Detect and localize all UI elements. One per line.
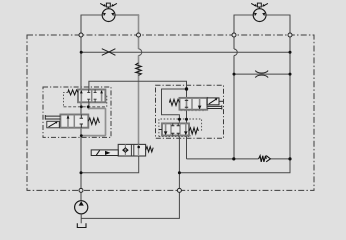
pump P1 [75,201,88,224]
LV2 spring right [88,118,99,124]
wire: x=186.5 through valves down to collector [186,110,188,159]
RV1 through line + stubs left cell [186,98,188,110]
port circle P (pump) [79,188,83,192]
LV1 pilot dotted lines [64,92,68,106]
LV1 pilot stub below [88,102,90,109]
check valve (spring-arrow) on collector line [259,156,267,162]
port circle M1-A [79,33,83,37]
wire: motor M1 right port down [115,14,139,16]
orifice restrictor symbol [255,71,268,78]
wire: collector line y=158.9 [187,158,291,160]
wire: x=179.4 return down to bottom port [178,136,180,191]
wire: branch to right lower valve [162,89,187,123]
RV2 dotted pilot box [159,119,202,137]
left valve group enclosure [43,87,111,137]
wire: pilot feed y=81.3 from left valve to right valve group [89,81,187,98]
tank symbol [77,223,86,227]
RV1 dotted underline [181,110,207,112]
outer enclosure dash-dot boundary [27,35,314,190]
port circle M2-A [232,33,236,37]
port circle M1-B [137,33,141,37]
LV1 blocked stubs left cell [87,90,90,103]
LV3 check/diamond in left cell [124,144,126,156]
valve RV2 (right group bottom) [159,119,202,137]
hydraulic motor M1 [100,3,117,21]
RV2 left port stub [159,129,162,131]
LV1 blocked stubs right cell [94,90,97,103]
LV3 through line right cell [138,144,140,156]
wire: return path y=172.8 [179,159,290,173]
RV2 spring right [189,128,198,134]
right valve group enclosure [156,85,224,138]
junction dot M2 right line [289,73,292,76]
LV2 blocked stubs right cell on main line [80,115,83,128]
RV1 flow arrow right cell [199,98,201,110]
LV3 solenoid box left [91,150,118,156]
valve RV1 (right group top) [169,98,223,111]
pilot channel loop from LV1 port around LV2 [81,107,105,136]
spring symbol on motor line x=138.5 [136,63,142,76]
junction dots [80,51,83,54]
RV1 pilot rod right [207,105,222,109]
LV1 flow arrow left cell [80,90,82,103]
RV1 spring left [169,99,179,105]
LV2 proportional solenoid box [47,121,60,128]
junction dot pilot/pump line [80,134,83,137]
LV1 spring [68,90,78,95]
junction dot M2 left line [233,73,236,76]
wire: motor M1 left port down (main pump line) [81,14,103,16]
hydraulic motor M2 [251,3,268,21]
port circle T (return) [177,188,181,192]
wire: motor M2 right port down [266,14,291,16]
wire: motor M2 left port down [234,14,254,16]
LV1 flow arrow right cell [101,90,103,103]
wire: tank return below enclosure [81,190,179,218]
LV3 spring right [146,147,154,152]
port circle M2-B [288,33,292,37]
valve LV1 counterbalance (left group top) [64,90,107,110]
RV2 blocked stubs middle cell [171,123,180,135]
valve LV3 solenoid valve (bottom centre) [91,144,153,156]
LV2 flow arrow left cell [67,115,69,128]
wire: interconnect y=74.1 between M2 lines [234,73,290,75]
RV1 variable orifice box top right [207,98,219,105]
valve LV2 (left group bottom) [45,115,99,128]
LV2 pilot rod left [45,115,60,120]
plugged line symbol X on y=52 line [102,49,116,56]
wire: LV3 outlet to pump line [81,156,139,173]
RV2 down arrow left cell [165,123,167,135]
RV2 down arrow right cell [185,123,187,135]
wire: cross line y=52 with hops [81,51,290,53]
